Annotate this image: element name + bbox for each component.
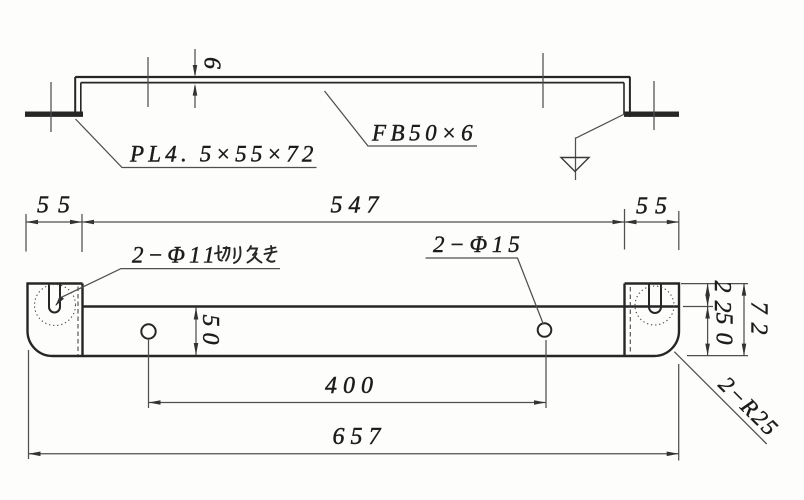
left bend inner edge (side view) <box>80 83 82 114</box>
svg-text:547: 547 <box>331 193 385 219</box>
extension from part left edge <box>28 350 30 459</box>
svg-text:400: 400 <box>325 373 379 399</box>
dimension line 50 (bar width) <box>195 308 197 356</box>
left slot (phi11 notch) <box>49 284 60 313</box>
svg-text:50: 50 <box>197 315 223 351</box>
svg-text:PL4. 5×55×72: PL4. 5×55×72 <box>129 142 318 167</box>
weld symbol triangle <box>561 158 589 172</box>
leader for 2-R25 <box>674 352 766 444</box>
right hidden circle (dotted) <box>635 286 674 325</box>
leader for FB50x6 <box>325 91 478 146</box>
svg-text:55: 55 <box>636 194 674 220</box>
extension line plate bottom right <box>687 355 748 357</box>
extension from right hole <box>545 340 547 408</box>
right end plate PL4.5 (side view) <box>624 111 679 116</box>
dimension line 55/547/55 <box>26 221 679 223</box>
hole phi15 right <box>538 323 552 337</box>
right bend outer edge (side view) <box>629 77 631 117</box>
right hidden bend line (dashed) <box>629 287 631 352</box>
left plate inner edge (plan) <box>81 284 83 357</box>
flat bar FB50x6 top line (side view) <box>75 76 630 78</box>
svg-text:FB50×6: FB50×6 <box>371 121 477 146</box>
right plate inner edge (plan) <box>623 284 625 357</box>
left bend outer edge (side view) <box>74 77 76 117</box>
extension line right plate inner <box>624 209 626 250</box>
svg-text:72: 72 <box>746 302 772 344</box>
part outline (plan view) <box>28 284 680 357</box>
flat bar FB50x6 bottom line (side view) <box>81 82 624 84</box>
leader for PL4.5x55x72 <box>76 119 317 168</box>
svg-text:2−Φ11: 2−Φ11 <box>132 243 219 268</box>
right slot (phi11 notch) <box>649 284 661 314</box>
dimension line 657 <box>29 453 679 455</box>
left end plate PL4.5 (side view) <box>25 111 83 116</box>
centerline tick right plate <box>653 81 655 130</box>
label kanji kiri-kaki (drawn strokes) <box>215 246 277 263</box>
extension line left edge <box>25 214 27 252</box>
dimension 6 upper extension <box>194 49 196 75</box>
hole phi15 left <box>141 324 155 338</box>
extension line right edge <box>678 211 680 250</box>
right bend inner edge (side view) <box>623 83 625 114</box>
extension line plate top right <box>681 283 748 285</box>
centerline tick left bar <box>147 57 149 107</box>
weld symbol leader <box>576 114 625 180</box>
left hidden bend line (dashed) <box>77 287 79 356</box>
centerline tick left plate <box>50 82 52 132</box>
extension from part right edge <box>678 364 680 461</box>
dimension line 72 vertical <box>743 284 745 356</box>
svg-text:2−Φ15: 2−Φ15 <box>433 232 525 257</box>
svg-text:55: 55 <box>37 193 79 219</box>
extension from left hole <box>148 340 150 408</box>
centerline tick right bar <box>542 53 544 108</box>
flat bar top edge (plan) <box>83 305 680 307</box>
extension line bar top right <box>683 306 713 308</box>
leader for 2-phi15 <box>426 258 544 325</box>
svg-text:657: 657 <box>333 424 387 450</box>
extension line left plate inner <box>81 214 83 252</box>
svg-text:50: 50 <box>711 313 737 353</box>
svg-text:6: 6 <box>199 57 225 69</box>
dimension line 22/50 vertical <box>707 284 709 356</box>
leader for 2-phi11 notch <box>56 269 280 305</box>
dimension 6 lower extension <box>194 86 196 108</box>
dimension line 400 <box>149 402 547 404</box>
left hidden circle (dotted) <box>35 285 76 326</box>
